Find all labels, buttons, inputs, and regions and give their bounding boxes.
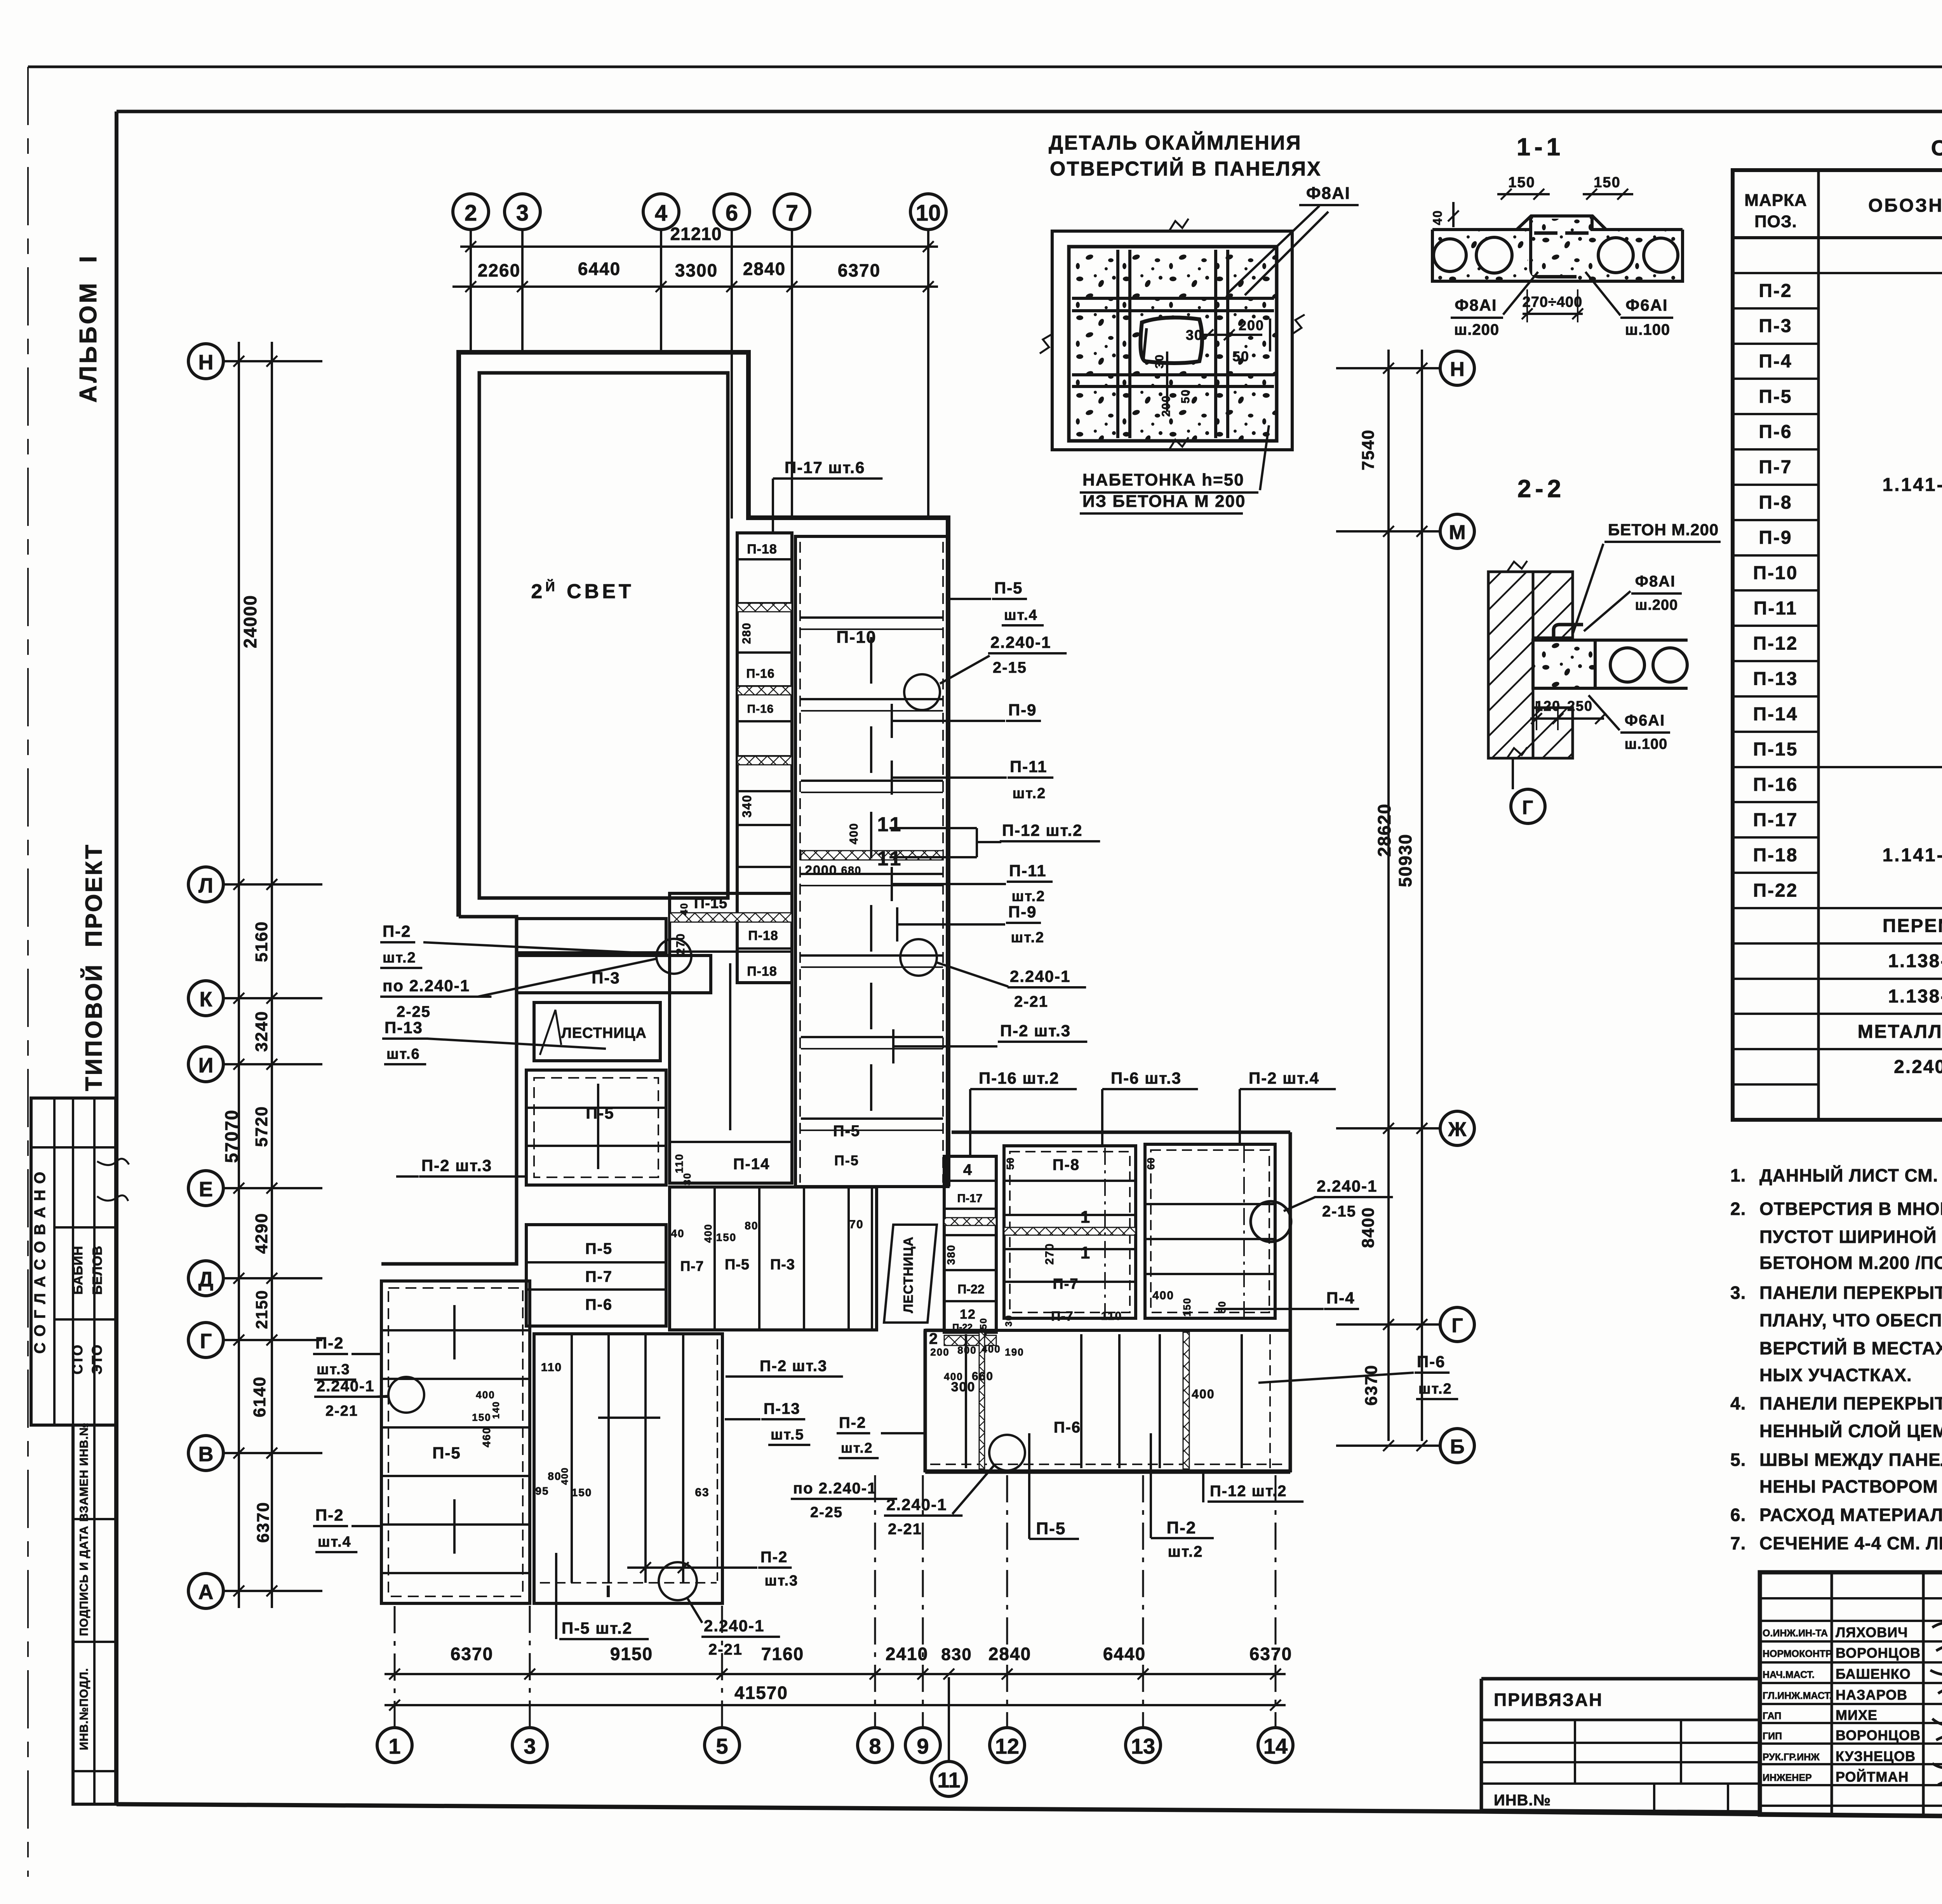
section 2-2 axis G circle: [1511, 789, 1545, 823]
svg-text:2: 2: [465, 200, 477, 226]
svg-text:12: 12: [960, 1307, 976, 1322]
svg-text:11: 11: [937, 1768, 960, 1792]
svg-text:300: 300: [951, 1380, 976, 1394]
svg-text:2000: 2000: [805, 863, 837, 878]
svg-text:шт.5: шт.5: [771, 1427, 804, 1443]
junction circle + label 2.240-1 / 2-21: [900, 939, 937, 976]
svg-text:21210: 21210: [670, 224, 722, 244]
svg-text:9: 9: [917, 1734, 929, 1758]
svg-text:830: 830: [941, 1645, 972, 1664]
svg-text:П-6 шт.3: П-6 шт.3: [1111, 1069, 1182, 1087]
svg-text:П-8: П-8: [1053, 1156, 1080, 1173]
svg-text:СЕЧЕНИЕ 4-4 СМ. ЛИСТ АС-15.: СЕЧЕНИЕ 4-4 СМ. ЛИСТ АС-15.: [1759, 1533, 1942, 1553]
svg-text:150: 150: [716, 1231, 737, 1243]
svg-text:ШВЫ МЕЖДУ ПАНЕЛЯМИ ПЕРЕКРЫТИЯ: ШВЫ МЕЖДУ ПАНЕЛЯМИ ПЕРЕКРЫТИЯ ДОЛЖНЫ БЫТ…: [1759, 1450, 1942, 1470]
svg-text:П-2 шт.3: П-2 шт.3: [421, 1156, 492, 1175]
svg-text:шт.2: шт.2: [1168, 1543, 1203, 1560]
spec table columns: [1817, 170, 1820, 1120]
svg-text:7: 7: [786, 200, 798, 226]
section 1-1 slab band: [1432, 228, 1530, 231]
svg-text:12: 12: [995, 1734, 1019, 1758]
svg-text:шт.6: шт.6: [386, 1046, 420, 1062]
svg-text:250: 250: [1567, 698, 1593, 714]
svg-text:2-21: 2-21: [325, 1403, 358, 1419]
detail outer square: [1052, 231, 1292, 450]
svg-text:БЕТОНОМ М.200 /ПОСЛЕ ПРОПУСКА: БЕТОНОМ М.200 /ПОСЛЕ ПРОПУСКА КОММУНИКАЦ…: [1759, 1253, 1942, 1273]
svg-text:2-25: 2-25: [810, 1504, 843, 1521]
svg-text:ИНВ.№: ИНВ.№: [1494, 1792, 1551, 1809]
svg-text:10: 10: [916, 200, 941, 226]
svg-text:50930: 50930: [1395, 834, 1415, 887]
svg-text:95: 95: [535, 1485, 549, 1497]
svg-text:П-5: П-5: [585, 1240, 613, 1257]
svg-text:шт.2: шт.2: [1012, 888, 1046, 905]
svg-text:13: 13: [1131, 1734, 1155, 1758]
svg-text:П-4: П-4: [1759, 351, 1792, 372]
junction circle 2.240-1 2-15 (wing): [1251, 1201, 1291, 1242]
svg-text:150: 150: [572, 1486, 592, 1498]
svg-text:П-8: П-8: [1759, 492, 1792, 513]
svg-text:П-11: П-11: [1754, 598, 1798, 619]
svg-text:Б: Б: [1450, 1436, 1464, 1458]
svg-text:Н: Н: [198, 351, 214, 374]
svg-text:Ф8АI: Ф8АI: [1455, 296, 1497, 314]
svg-text:П-5 шт.2: П-5 шт.2: [562, 1619, 632, 1637]
monolith joint band in strip: [801, 851, 943, 860]
approval stamp table (soglasovano): [31, 1098, 116, 1425]
svg-text:ДЕТАЛЬ ОКАЙМЛЕНИЯ: ДЕТАЛЬ ОКАЙМЛЕНИЯ: [1049, 131, 1302, 154]
svg-text:2-21: 2-21: [888, 1521, 922, 1538]
svg-text:1.141-1 В. 60: 1.141-1 В. 60: [1883, 845, 1942, 866]
svg-text:11: 11: [877, 848, 903, 870]
svg-text:П-16: П-16: [1753, 774, 1798, 795]
svg-text:П-3: П-3: [1759, 316, 1792, 336]
svg-text:14: 14: [1263, 1734, 1288, 1758]
svg-text:П-2: П-2: [1167, 1518, 1197, 1537]
svg-text:О.ИНЖ.ИН-ТА: О.ИНЖ.ИН-ТА: [1763, 1628, 1828, 1639]
svg-text:П-13: П-13: [385, 1018, 423, 1037]
svg-text:ГИП: ГИП: [1763, 1731, 1782, 1742]
label 2.240-1 / 2-21 (wing bottom left): [989, 1435, 1025, 1471]
svg-text:П-6: П-6: [1759, 422, 1792, 442]
svg-text:П-5: П-5: [586, 1104, 614, 1122]
svg-text:5: 5: [716, 1734, 728, 1758]
svg-text:110: 110: [541, 1361, 562, 1374]
svg-text:КУЗНЕЦОВ: КУЗНЕЦОВ: [1836, 1748, 1916, 1764]
svg-text:1: 1: [1081, 1208, 1091, 1227]
svg-text:шт.4: шт.4: [318, 1534, 352, 1550]
svg-text:МЕТАЛЛИЧЕСКИЕ: МЕТАЛЛИЧЕСКИЕ: [1858, 1022, 1942, 1042]
svg-text:ПОДПИСЬ И ДАТА: ПОДПИСЬ И ДАТА: [78, 1526, 90, 1636]
svg-text:Ж: Ж: [1448, 1118, 1467, 1141]
svg-text:Г: Г: [200, 1330, 212, 1353]
svg-text:6: 6: [726, 200, 738, 226]
hollow cores: [1434, 239, 1466, 272]
svg-text:НЕНЫ РАСТВОРОМ М.100.ШВЫ ПЕРЕД: НЕНЫ РАСТВОРОМ М.100.ШВЫ ПЕРЕД ЗАДЕЛКОЙ …: [1759, 1476, 1942, 1497]
svg-text:280: 280: [740, 622, 753, 644]
svg-text:1.138-10 В.2: 1.138-10 В.2: [1888, 986, 1942, 1007]
P-5 block left: [526, 1070, 666, 1185]
svg-text:200: 200: [1239, 317, 1264, 333]
svg-text:7.: 7.: [1730, 1533, 1746, 1553]
svg-text:400: 400: [1152, 1289, 1174, 1302]
svg-text:И: И: [198, 1054, 214, 1077]
svg-text:4: 4: [963, 1161, 973, 1178]
svg-text:2-21: 2-21: [1014, 993, 1048, 1010]
svg-text:400: 400: [702, 1224, 714, 1243]
spec table rows: [1733, 272, 1942, 274]
svg-text:2410: 2410: [886, 1644, 928, 1664]
wing block right (P-12 area): [1145, 1144, 1275, 1318]
svg-text:П-9: П-9: [1759, 527, 1792, 548]
svg-text:380: 380: [945, 1244, 957, 1265]
svg-text:НАЗАРОВ: НАЗАРОВ: [1836, 1687, 1907, 1703]
svg-text:6370: 6370: [838, 260, 881, 280]
svg-text:2.240-1: 2.240-1: [1317, 1177, 1377, 1195]
svg-text:7160: 7160: [761, 1644, 804, 1664]
svg-text:МАРКА: МАРКА: [1744, 191, 1807, 210]
svg-text:6440: 6440: [1103, 1644, 1146, 1664]
svg-text:2.240-1: 2.240-1: [704, 1617, 764, 1635]
P-10 long panel strip: [795, 536, 948, 1187]
svg-text:шт.2: шт.2: [1013, 785, 1046, 802]
svg-text:6440: 6440: [578, 259, 621, 279]
svg-text:П-12: П-12: [1753, 634, 1798, 654]
svg-text:П-18: П-18: [1753, 845, 1798, 866]
svg-text:ПЕРЕМЫЧКИ: ПЕРЕМЫЧКИ: [1883, 915, 1942, 936]
svg-text:ГЛ.ИНЖ.МАСТ.: ГЛ.ИНЖ.МАСТ.: [1763, 1690, 1832, 1701]
svg-text:3: 3: [524, 1734, 536, 1758]
svg-text:3: 3: [516, 200, 529, 226]
svg-text:2-15: 2-15: [993, 659, 1027, 676]
svg-text:П-2: П-2: [839, 1414, 866, 1431]
svg-text:Ф6АI: Ф6АI: [1625, 296, 1668, 314]
svg-text:П-16: П-16: [747, 703, 774, 715]
svg-text:БЕТОН М.200: БЕТОН М.200: [1608, 520, 1719, 539]
svg-text:50: 50: [1179, 389, 1192, 403]
svg-text:Г: Г: [1451, 1314, 1463, 1337]
svg-text:8: 8: [869, 1734, 881, 1758]
svg-text:2.240-1: 2.240-1: [1010, 967, 1070, 985]
svg-text:200: 200: [1160, 395, 1173, 417]
svg-text:П-12 шт.2: П-12 шт.2: [1002, 821, 1082, 839]
svg-text:ПОЗ.: ПОЗ.: [1754, 212, 1797, 231]
svg-text:150: 150: [1508, 174, 1535, 191]
wing block P-8/P-7: [1004, 1146, 1136, 1318]
svg-text:ОТВЕРСТИЙ В ПАНЕЛЯХ: ОТВЕРСТИЙ В ПАНЕЛЯХ: [1050, 157, 1322, 180]
svg-text:Г: Г: [1522, 797, 1534, 818]
wing lower block: [925, 1330, 1290, 1471]
svg-text:ЭТО: ЭТО: [89, 1344, 105, 1375]
svg-text:3240: 3240: [252, 1011, 271, 1052]
svg-text:по 2.240-1: по 2.240-1: [383, 976, 470, 995]
svg-text:П-5: П-5: [834, 1152, 859, 1168]
svg-text:ОТВЕРСТИЯ В МНОГОПУСТОТНЫХ ПАН: ОТВЕРСТИЯ В МНОГОПУСТОТНЫХ ПАНЕЛЯХ ПРОБИ…: [1759, 1199, 1942, 1219]
svg-text:Ф8АI: Ф8АI: [1306, 184, 1350, 203]
svg-text:ДАННЫЙ ЛИСТ СМ. СОВМЕСТНО С ЛИ: ДАННЫЙ ЛИСТ СМ. СОВМЕСТНО С ЛИСТАМИ АС-5…: [1759, 1165, 1942, 1185]
svg-text:50: 50: [1216, 1301, 1228, 1314]
svg-text:Л: Л: [198, 874, 213, 897]
svg-text:шт.2: шт.2: [1011, 929, 1045, 946]
middle strip P-15/P-14: [670, 893, 792, 1183]
svg-text:П-4: П-4: [1326, 1289, 1355, 1307]
svg-text:ЛЕСТНИЦА: ЛЕСТНИЦА: [561, 1025, 647, 1041]
svg-text:шт.2: шт.2: [841, 1440, 873, 1456]
svg-text:50: 50: [1232, 348, 1249, 364]
svg-text:6.: 6.: [1730, 1505, 1746, 1525]
svg-text:7540: 7540: [1359, 429, 1378, 470]
svg-text:П-2: П-2: [1759, 280, 1792, 301]
svg-text:30: 30: [681, 1173, 693, 1185]
svg-text:НОРМОКОНТР: НОРМОКОНТР: [1763, 1648, 1832, 1659]
svg-text:ТИПОВОЙ ПРОЕКТ: ТИПОВОЙ ПРОЕКТ: [81, 843, 107, 1091]
svg-text:2.240-1: 2.240-1: [886, 1495, 947, 1514]
svg-text:5160: 5160: [252, 921, 271, 962]
bottom-left block BL1: [381, 1281, 530, 1603]
svg-text:2.240-1 В.2: 2.240-1 В.2: [1894, 1057, 1942, 1077]
svg-text:шт.3: шт.3: [317, 1361, 350, 1378]
svg-text:80: 80: [745, 1220, 758, 1232]
svg-text:40: 40: [1430, 210, 1444, 225]
top grid axis circles 2 3 4 6 7 10: [453, 194, 489, 230]
svg-text:6140: 6140: [250, 1376, 269, 1417]
svg-text:70: 70: [849, 1218, 863, 1231]
svg-text:150: 150: [1181, 1297, 1193, 1316]
svg-text:150: 150: [1594, 174, 1620, 191]
svg-text:К: К: [200, 988, 213, 1011]
svg-text:24000: 24000: [240, 595, 260, 648]
svg-text:П-18: П-18: [747, 542, 777, 557]
svg-text:П-5: П-5: [432, 1444, 461, 1462]
svg-text:П-5: П-5: [833, 1123, 860, 1140]
svg-text:ОБОЗНАЧЕНИЕ: ОБОЗНАЧЕНИЕ: [1868, 195, 1942, 216]
svg-text:НЫХ УЧАСТКАХ.: НЫХ УЧАСТКАХ.: [1759, 1365, 1912, 1385]
title block outer: [1760, 1572, 1942, 1821]
svg-text:110: 110: [673, 1153, 685, 1173]
spec table frame: [1733, 170, 1942, 1120]
svg-text:РОЙТМАН: РОЙТМАН: [1836, 1768, 1909, 1785]
svg-text:ш.100: ш.100: [1625, 321, 1670, 338]
svg-text:ИНЖЕНЕР: ИНЖЕНЕР: [1763, 1772, 1812, 1783]
svg-text:30: 30: [1004, 1315, 1014, 1327]
svg-text:РАСХОД МАТЕРИАЛОВ НА ЛИСТ: Ф8А: РАСХОД МАТЕРИАЛОВ НА ЛИСТ: Ф8АI-75,4 КГ;…: [1759, 1505, 1942, 1525]
svg-text:680: 680: [841, 864, 862, 876]
staircase box (lestnitsa): [534, 1002, 660, 1061]
svg-text:800: 800: [957, 1344, 976, 1356]
svg-text:Н: Н: [1450, 358, 1465, 381]
svg-text:П-11: П-11: [1010, 757, 1048, 776]
junction circle + label 2.240-1 / 2-21 (bottom mid): [659, 1562, 697, 1600]
bottom-left block BL2: [534, 1334, 722, 1603]
svg-text:П-5: П-5: [1759, 386, 1792, 407]
svg-text:2.240-1: 2.240-1: [317, 1378, 375, 1395]
svg-text:П-18: П-18: [747, 964, 777, 979]
svg-text:400: 400: [981, 1343, 1001, 1355]
svg-text:5.: 5.: [1730, 1450, 1746, 1470]
middle bottom rows P-7 P-5 P-3: [670, 1187, 877, 1330]
svg-text:ПАНЕЛИ ПЕРЕКРЫТИЯ УКЛАДЫВАЮТСЯ: ПАНЕЛИ ПЕРЕКРЫТИЯ УКЛАДЫВАЮТСЯ НА СВЕЖЕУ…: [1759, 1393, 1942, 1413]
svg-text:ПРИВЯЗАН: ПРИВЯЗАН: [1494, 1690, 1603, 1710]
svg-text:П-15: П-15: [694, 895, 727, 912]
svg-text:6370: 6370: [254, 1502, 273, 1543]
detail inner square with concrete speckles: [1069, 247, 1277, 441]
svg-text:С О Г Л А С О В А Н О: С О Г Л А С О В А Н О: [31, 1171, 49, 1354]
svg-text:ВОРОНЦОВ: ВОРОНЦОВ: [1836, 1645, 1921, 1661]
slab entering wall: [1533, 640, 1595, 688]
svg-text:П-17: П-17: [957, 1192, 983, 1205]
signatures scribbles: [1930, 1622, 1942, 1789]
right wing outline: [952, 1131, 1290, 1134]
svg-text:11: 11: [877, 813, 903, 836]
section 1-1 dims: [1497, 193, 1550, 195]
svg-text:50: 50: [1004, 1157, 1016, 1170]
svg-text:П-7: П-7: [585, 1268, 613, 1285]
svg-text:400: 400: [476, 1389, 495, 1401]
P-5 P-7 P-6 rows block: [526, 1225, 666, 1326]
central hole: [1140, 318, 1202, 364]
top rebar in key: [1534, 231, 1557, 235]
svg-text:60: 60: [1145, 1157, 1157, 1170]
sheet outer border: [28, 66, 1942, 68]
svg-text:5720: 5720: [252, 1106, 271, 1147]
svg-text:П-14: П-14: [733, 1156, 770, 1173]
left vertical dimension chain lines: [238, 342, 240, 1608]
svg-text:П-2: П-2: [315, 1334, 344, 1352]
svg-text:120: 120: [1535, 698, 1561, 714]
svg-text:П-2: П-2: [383, 922, 411, 940]
top dimension line total 21210: [460, 245, 938, 248]
svg-text:шт.4: шт.4: [1004, 607, 1038, 623]
svg-text:П-6: П-6: [1417, 1352, 1446, 1371]
right grid axis circles: [1440, 351, 1474, 385]
svg-text:2260: 2260: [478, 260, 520, 280]
svg-text:П-14: П-14: [1753, 704, 1798, 724]
bottom dimension line segments: [385, 1673, 1286, 1675]
svg-text:БЕЛОВ: БЕЛОВ: [90, 1246, 105, 1295]
svg-text:ИНВ.№ПОДЛ.: ИНВ.№ПОДЛ.: [78, 1668, 90, 1750]
svg-text:по 2.240-1: по 2.240-1: [793, 1480, 877, 1497]
svg-text:шт.2: шт.2: [1418, 1381, 1452, 1397]
svg-text:ЛЕСТНИЦА: ЛЕСТНИЦА: [901, 1236, 916, 1313]
svg-text:2840: 2840: [743, 259, 786, 279]
svg-text:2-25: 2-25: [397, 1003, 431, 1020]
svg-text:57070: 57070: [221, 1109, 242, 1163]
svg-text:Ф8АI: Ф8АI: [1635, 573, 1676, 590]
svg-text:П-2: П-2: [760, 1549, 788, 1566]
2nd-light inner wall rectangle: [479, 373, 728, 898]
svg-text:200: 200: [930, 1346, 949, 1358]
svg-text:2-21: 2-21: [708, 1641, 743, 1658]
svg-text:1.141-1 В. 63: 1.141-1 В. 63: [1883, 475, 1942, 495]
left grid axis circles: [188, 344, 223, 379]
svg-text:2.240-1: 2.240-1: [990, 633, 1051, 651]
bottom dimension total 41570: [385, 1704, 1286, 1706]
svg-text:ВЕРСТИЙ В МЕСТАХ РАСПОЛОЖЕНИЯ: ВЕРСТИЙ В МЕСТАХ РАСПОЛОЖЕНИЯ ПУСТОТ ПАН…: [1759, 1338, 1942, 1358]
svg-text:2-15: 2-15: [1322, 1203, 1356, 1220]
svg-text:П-12 шт.2: П-12 шт.2: [1210, 1483, 1287, 1500]
svg-text:1.: 1.: [1730, 1165, 1746, 1185]
svg-text:30: 30: [1186, 327, 1203, 343]
break marks: [1169, 219, 1189, 231]
svg-text:ВЗАМЕН ИНВ.№: ВЗАМЕН ИНВ.№: [78, 1422, 90, 1521]
svg-text:П-17 шт.6: П-17 шт.6: [785, 458, 865, 477]
building outline: 2nd-light hall block (top-left): [459, 352, 948, 1187]
svg-text:150: 150: [472, 1411, 491, 1423]
svg-text:шт.3: шт.3: [765, 1573, 799, 1589]
svg-text:П-2 шт.3: П-2 шт.3: [1000, 1022, 1071, 1040]
svg-text:1: 1: [388, 1734, 400, 1758]
svg-text:ВОРОНЦОВ: ВОРОНЦОВ: [1836, 1727, 1921, 1743]
svg-text:П-16 шт.2: П-16 шт.2: [979, 1069, 1059, 1087]
P-3 row block: [517, 919, 666, 953]
svg-text:П-15: П-15: [1753, 739, 1798, 760]
svg-text:П-9: П-9: [1008, 701, 1037, 719]
svg-text:6370: 6370: [1362, 1364, 1381, 1406]
svg-text:БАБИН: БАБИН: [71, 1246, 85, 1295]
svg-text:П-7: П-7: [1053, 1276, 1079, 1292]
svg-text:РУК.ГР.ИНЖ: РУК.ГР.ИНЖ: [1763, 1752, 1820, 1763]
svg-text:400: 400: [560, 1467, 570, 1485]
svg-text:40: 40: [671, 1227, 684, 1239]
section 2-2 wall hatched: [1488, 572, 1533, 758]
svg-text:П-5: П-5: [994, 579, 1023, 597]
svg-text:2.: 2.: [1730, 1199, 1746, 1219]
svg-text:3300: 3300: [675, 260, 718, 280]
svg-text:Ф6АI: Ф6АI: [1625, 712, 1665, 729]
rebar lines: [1072, 297, 1274, 300]
svg-text:ПУСТОТ ШИРИНОЙ НЕ БОЛЕЕ 150 ММ: ПУСТОТ ШИРИНОЙ НЕ БОЛЕЕ 150 ММ С ПОСЛЕДУ…: [1759, 1227, 1942, 1247]
svg-text:6370: 6370: [1249, 1644, 1292, 1664]
svg-text:СТО: СТО: [70, 1344, 85, 1374]
staircase 2 (rotated): [884, 1225, 937, 1323]
svg-text:А: А: [198, 1580, 214, 1604]
svg-text:П-22: П-22: [957, 1282, 984, 1296]
svg-text:ш.200: ш.200: [1635, 597, 1678, 613]
svg-text:ПЛАНУ, ЧТО ОБЕСПЕЧИВАЕТ РАЗМЕЩ: ПЛАНУ, ЧТО ОБЕСПЕЧИВАЕТ РАЗМЕЩЕНИЕ ВСЕХ …: [1759, 1310, 1942, 1330]
svg-text:41570: 41570: [734, 1683, 788, 1703]
lower left stamp column (vzamen inv / podpis i data / inv n podl): [73, 1425, 116, 1804]
svg-text:1: 1: [1081, 1243, 1091, 1262]
svg-text:30: 30: [1153, 354, 1166, 368]
title block left columns: [1831, 1572, 1833, 1816]
top dimension line segments: [452, 285, 938, 288]
svg-text:2150: 2150: [252, 1290, 271, 1329]
svg-text:П-6: П-6: [585, 1296, 613, 1313]
svg-text:П-16: П-16: [746, 667, 774, 680]
svg-text:М: М: [1449, 521, 1465, 544]
svg-text:П-2 шт.4: П-2 шт.4: [1249, 1069, 1319, 1087]
svg-text:МИХЕ: МИХЕ: [1836, 1707, 1878, 1723]
svg-text:П-11: П-11: [1009, 861, 1047, 880]
svg-text:4: 4: [655, 200, 667, 226]
svg-text:П-10: П-10: [1753, 563, 1798, 583]
svg-text:П-7: П-7: [680, 1258, 704, 1274]
P-18 panel strip: [737, 533, 792, 983]
svg-text:П-13: П-13: [1753, 669, 1798, 689]
svg-text:ПАНЕЛИ ПЕРЕКРЫТИЯ СЛЕДУЕТ УКЛА: ПАНЕЛИ ПЕРЕКРЫТИЯ СЛЕДУЕТ УКЛАДЫВАТЬ СТР…: [1759, 1283, 1942, 1303]
svg-text:П-9: П-9: [1008, 903, 1037, 921]
svg-text:П-7: П-7: [1759, 457, 1792, 477]
svg-text:4.: 4.: [1730, 1393, 1746, 1413]
P-17/P-22 narrow column: [944, 1156, 996, 1332]
svg-text:1.138-10 В.1: 1.138-10 В.1: [1888, 951, 1942, 971]
svg-text:НЕННЫЙ СЛОЙ ЦЕМЕНТНОГО РАСТВОР: НЕННЫЙ СЛОЙ ЦЕМЕНТНОГО РАСТВОРА М.100 ТО…: [1759, 1421, 1942, 1441]
svg-text:ш.200: ш.200: [1454, 321, 1499, 338]
svg-text:П-5: П-5: [1036, 1519, 1066, 1538]
svg-text:340: 340: [740, 794, 754, 817]
svg-text:БАШЕНКО: БАШЕНКО: [1836, 1666, 1911, 1682]
svg-text:1-1: 1-1: [1517, 133, 1564, 161]
